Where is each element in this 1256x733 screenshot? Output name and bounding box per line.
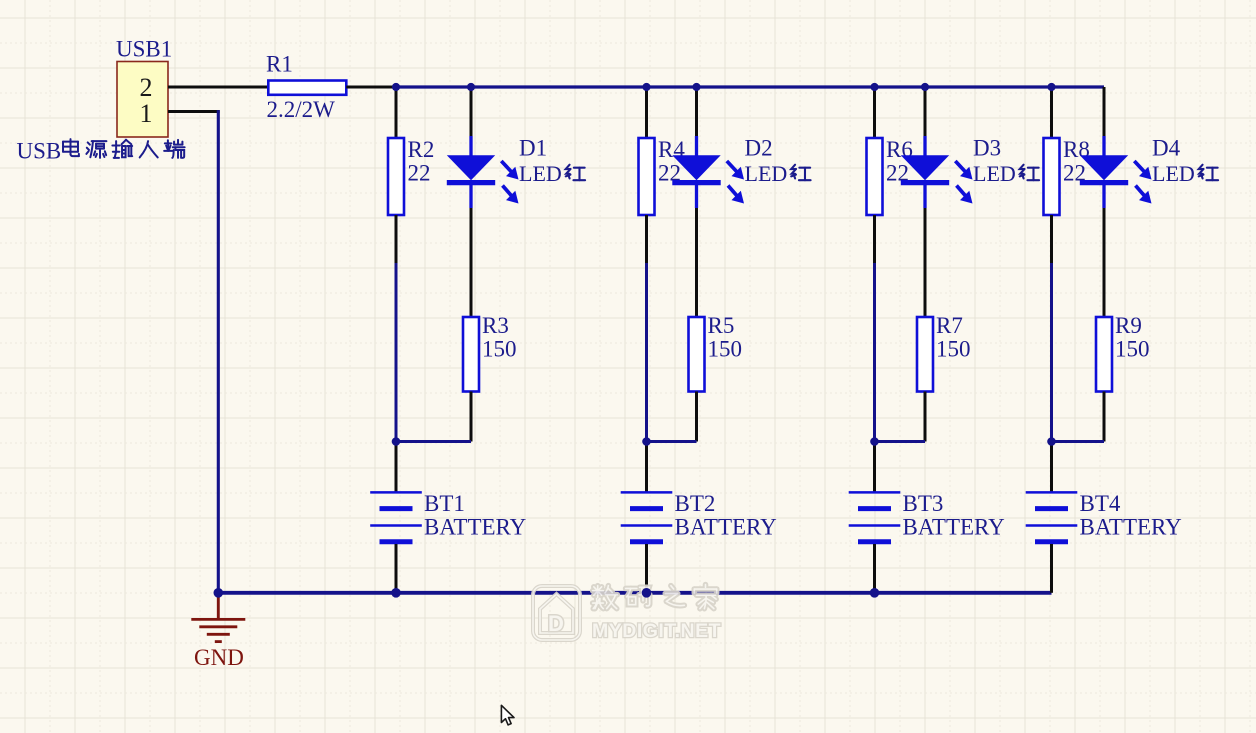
wire/pin R8 top bbox=[1050, 87, 1053, 138]
designator D4 bbox=[1152, 135, 1181, 160]
value 2.2/2W bbox=[267, 97, 336, 122]
pin BT1 top bbox=[395, 442, 398, 493]
junction nodes bottom rail bbox=[214, 588, 880, 598]
pin R2 bottom bbox=[395, 215, 398, 263]
pin R5 bottom bbox=[695, 392, 698, 442]
resistor R9 bbox=[1096, 317, 1112, 392]
watermark mydigit.net bbox=[533, 585, 721, 642]
pin D2 anode bbox=[695, 87, 698, 137]
label LED红 (D3) bbox=[973, 161, 1039, 186]
resistor R8 bbox=[1044, 138, 1060, 215]
svg-text:BATTERY: BATTERY bbox=[1080, 515, 1183, 540]
wire R4 to node bbox=[645, 263, 648, 442]
designator R5 bbox=[708, 313, 735, 338]
svg-text:R9: R9 bbox=[1115, 313, 1142, 338]
label USB电源输入端 bbox=[17, 139, 185, 164]
wire GND vertical bbox=[217, 110, 220, 593]
resistor R2 bbox=[388, 138, 404, 215]
svg-text:D4: D4 bbox=[1152, 135, 1181, 160]
pin BT2 top bbox=[645, 442, 648, 493]
pin BT3 bottom bbox=[873, 544, 876, 593]
pin BT4 top bbox=[1050, 442, 1053, 493]
designator D2 bbox=[745, 135, 773, 160]
wire/pin R4 top bbox=[645, 87, 648, 138]
pin BT2 bottom bbox=[645, 544, 648, 593]
value 22 (R4) bbox=[658, 161, 681, 186]
designator D1 bbox=[519, 135, 547, 160]
label LED红 (D4) bbox=[1152, 161, 1218, 186]
pin BT4 bottom bbox=[1050, 544, 1053, 593]
wire top rail bbox=[396, 85, 1104, 88]
wire R6 to node bbox=[873, 263, 876, 442]
pin number 1 bbox=[140, 99, 153, 128]
svg-text:D2: D2 bbox=[745, 135, 773, 160]
svg-text:R7: R7 bbox=[936, 313, 963, 338]
label BATTERY (BT1) bbox=[424, 515, 527, 540]
designator R8 bbox=[1063, 137, 1090, 162]
pin BT1 bottom bbox=[395, 544, 398, 593]
svg-text:R3: R3 bbox=[482, 313, 509, 338]
svg-text:BT4: BT4 bbox=[1080, 491, 1121, 516]
pin D1 cathode / R3 top bbox=[470, 208, 473, 317]
resistor R5 bbox=[689, 317, 705, 392]
battery BT3 bbox=[849, 492, 901, 541]
ground symbol bbox=[191, 619, 245, 641]
svg-text:150: 150 bbox=[936, 337, 971, 362]
value 150 (R7) bbox=[936, 337, 971, 362]
wire R1 to node bbox=[346, 86, 396, 89]
designator R7 bbox=[936, 313, 963, 338]
mouse cursor bbox=[501, 705, 514, 725]
label BATTERY (BT3) bbox=[903, 515, 1006, 540]
svg-text:USB1: USB1 bbox=[116, 37, 172, 62]
svg-text:USB: USB bbox=[17, 139, 62, 164]
value 150 (R3) bbox=[482, 337, 517, 362]
value 150 (R5) bbox=[708, 337, 743, 362]
wire to ground bbox=[217, 593, 220, 620]
wire R5 to node bbox=[647, 440, 697, 443]
pin D1 anode bbox=[470, 87, 473, 137]
resistor R3 bbox=[463, 317, 479, 392]
pin R4 bottom bbox=[645, 215, 648, 263]
svg-text:150: 150 bbox=[708, 337, 743, 362]
LED D4 bbox=[1080, 136, 1152, 208]
svg-text:BT3: BT3 bbox=[903, 491, 944, 516]
battery BT2 bbox=[621, 492, 673, 541]
designator R2 bbox=[408, 137, 435, 162]
value 150 (R9) bbox=[1115, 337, 1150, 362]
designator USB1 bbox=[116, 37, 172, 62]
svg-text:BT1: BT1 bbox=[424, 491, 465, 516]
designator R9 bbox=[1115, 313, 1142, 338]
pin number 2 bbox=[140, 73, 153, 102]
designator BT1 bbox=[424, 491, 465, 516]
resistor R7 bbox=[917, 317, 933, 392]
pin R6 bottom bbox=[873, 215, 876, 263]
connector USB1 bbox=[117, 62, 168, 138]
label BATTERY (BT4) bbox=[1080, 515, 1183, 540]
svg-text:22: 22 bbox=[408, 161, 431, 186]
pin R9 bottom bbox=[1103, 392, 1106, 442]
pin D4 anode bbox=[1103, 87, 1106, 137]
pin R7 bottom bbox=[924, 392, 927, 442]
pin BT3 top bbox=[873, 442, 876, 493]
svg-text:150: 150 bbox=[1115, 337, 1150, 362]
svg-text:LED: LED bbox=[973, 161, 1016, 186]
value 22 (R2) bbox=[408, 161, 431, 186]
wire R2 to node bbox=[395, 263, 398, 442]
svg-text:R2: R2 bbox=[408, 137, 435, 162]
designator BT3 bbox=[903, 491, 944, 516]
junction nodes mid bbox=[392, 437, 1056, 446]
resistor R4 bbox=[639, 138, 655, 215]
resistor R6 bbox=[867, 138, 883, 215]
LED D3 bbox=[901, 136, 973, 208]
svg-text:150: 150 bbox=[482, 337, 517, 362]
designator D3 bbox=[973, 135, 1001, 160]
value 22 (R6) bbox=[886, 161, 909, 186]
svg-text:BATTERY: BATTERY bbox=[424, 515, 527, 540]
LED D1 bbox=[447, 136, 519, 208]
value 22 (R8) bbox=[1063, 161, 1086, 186]
label BATTERY (BT2) bbox=[675, 515, 778, 540]
svg-text:R5: R5 bbox=[708, 313, 735, 338]
label GND bbox=[194, 645, 244, 670]
battery BT4 bbox=[1026, 492, 1078, 541]
designator R1 bbox=[266, 52, 293, 77]
pin D4 cathode / R9 top bbox=[1103, 208, 1106, 317]
svg-text:1: 1 bbox=[140, 99, 153, 128]
svg-text:D1: D1 bbox=[519, 135, 547, 160]
svg-text:BT2: BT2 bbox=[675, 491, 716, 516]
svg-text:2.2/2W: 2.2/2W bbox=[267, 97, 336, 122]
wire/pin R2 top bbox=[395, 87, 398, 138]
battery BT1 bbox=[370, 492, 422, 541]
label LED红 (D2) bbox=[745, 161, 811, 186]
pin R8 bottom bbox=[1050, 215, 1053, 263]
LED D2 bbox=[672, 136, 744, 208]
designator BT4 bbox=[1080, 491, 1121, 516]
svg-text:D3: D3 bbox=[973, 135, 1001, 160]
wire R8 to node bbox=[1050, 263, 1053, 442]
svg-text:BATTERY: BATTERY bbox=[675, 515, 778, 540]
svg-text:BATTERY: BATTERY bbox=[903, 515, 1006, 540]
resistor R1 bbox=[268, 81, 346, 95]
wire/pin R6 top bbox=[873, 87, 876, 138]
wire R7 to node bbox=[875, 440, 926, 443]
pin D3 anode bbox=[924, 87, 927, 137]
wire bottom rail bbox=[218, 591, 1051, 595]
wire R9 to node bbox=[1052, 440, 1105, 443]
svg-text:GND: GND bbox=[194, 645, 244, 670]
designator BT2 bbox=[675, 491, 716, 516]
svg-text:LED: LED bbox=[519, 161, 562, 186]
pin D3 cathode / R7 top bbox=[924, 208, 927, 317]
wire R3 to node bbox=[396, 440, 471, 443]
svg-text:R1: R1 bbox=[266, 52, 293, 77]
pin 2 wire bbox=[168, 86, 268, 89]
junction nodes top rail bbox=[392, 83, 1056, 91]
svg-text:MYDIGIT.NET: MYDIGIT.NET bbox=[592, 620, 721, 642]
svg-text:D: D bbox=[548, 611, 564, 636]
designator R4 bbox=[658, 137, 685, 162]
svg-text:LED: LED bbox=[745, 161, 788, 186]
label LED红 (D1) bbox=[519, 161, 585, 186]
svg-text:LED: LED bbox=[1152, 161, 1195, 186]
pin 1 wire bbox=[168, 110, 220, 113]
designator R3 bbox=[482, 313, 509, 338]
pin D2 cathode / R5 top bbox=[695, 208, 698, 317]
designator R6 bbox=[886, 137, 913, 162]
pin R3 bottom bbox=[470, 392, 473, 442]
